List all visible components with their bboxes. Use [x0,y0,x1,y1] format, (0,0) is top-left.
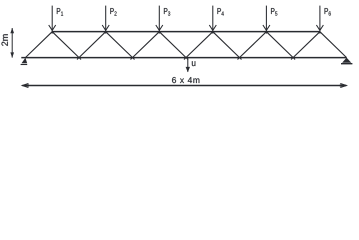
load P3 arrow [156,6,163,34]
load P6 arrow [316,6,323,34]
load P5 arrow [263,6,270,34]
diagonal member (bottom node 4 up-right) [238,32,267,60]
diagonal member (top node 4 down-right) [213,32,242,60]
diagonal member (top node 5 down-right) [266,32,295,60]
diagonal member (top node 3 down-right) [159,32,188,60]
diagonal member (top node 6 down-right) [320,32,347,58]
load P4 arrow [209,6,216,34]
diagonal member (bottom node 5 up-right) [291,32,320,60]
diagonal member (bottom node 0 up-right) [25,32,52,58]
u label [192,61,195,66]
span dimension label 6 x 4m [172,77,199,83]
load P3 label [164,8,170,16]
midspan deflection arrow u [186,58,190,72]
top chord member [52,31,320,33]
load P4 label [217,8,223,15]
load P2 label [110,8,116,15]
left support (pin) [21,58,28,65]
load P5 label [271,8,277,16]
diagonal member (top node 1 down-right) [52,32,81,60]
span dimension line (6 x 4m) [22,84,346,88]
height dimension (2m) double arrow [10,28,14,58]
diagonal member (bottom node 2 up-right) [131,32,160,60]
diagonal member (bottom node 3 up-right) [184,32,213,60]
right support (pin) [341,58,352,64]
2m dimension label [2,34,8,45]
bottom chord member [21,57,346,59]
load P1 label [57,8,63,15]
load P2 arrow [102,6,109,34]
diagonal member (bottom node 1 up-right) [77,32,106,60]
load P6 label [325,8,331,16]
diagonal member (top node 2 down-right) [106,32,135,60]
load P1 arrow [49,6,56,34]
